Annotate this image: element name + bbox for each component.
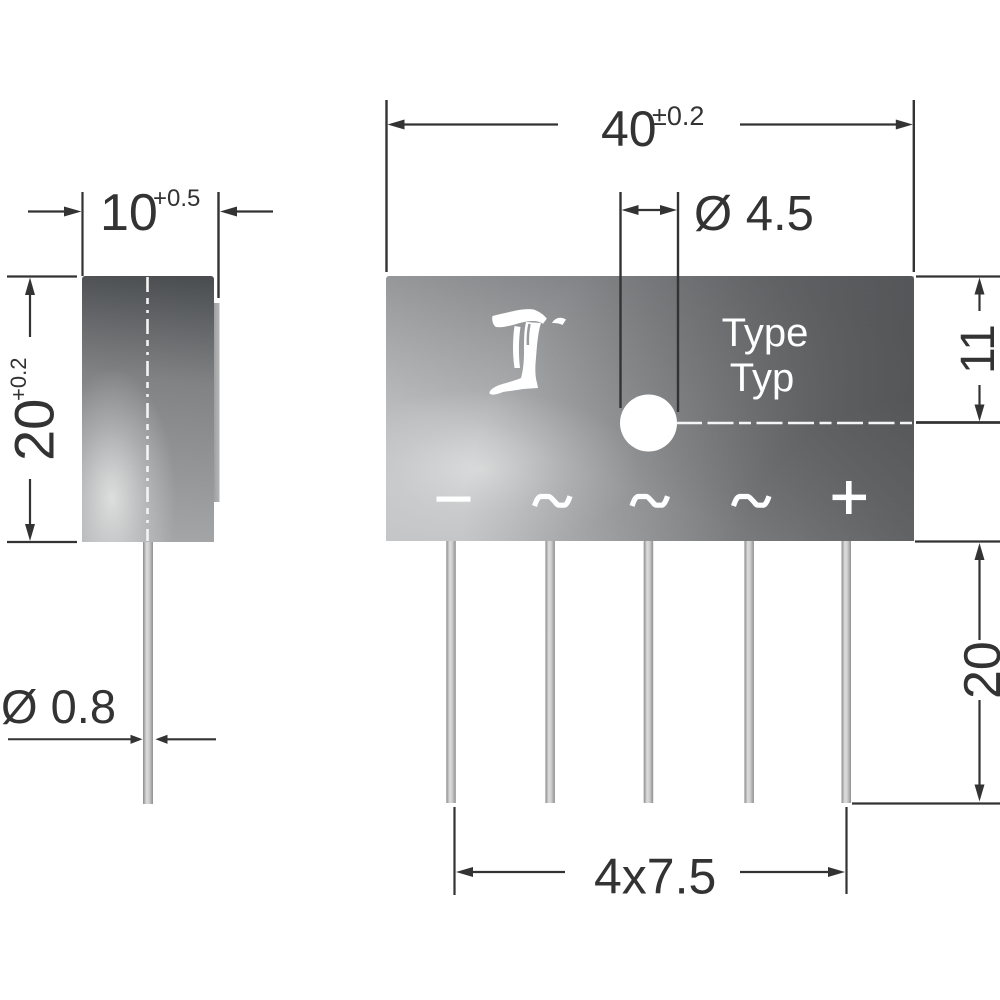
dimension 10 arrow left xyxy=(64,207,82,217)
svg-text:20: 20 xyxy=(3,399,66,461)
dimension 10 extension right xyxy=(217,192,219,298)
dimension 10 extension left xyxy=(81,192,83,276)
svg-text:±0.2: ±0.2 xyxy=(652,101,704,131)
svg-text:Ø 4.5: Ø 4.5 xyxy=(694,187,814,241)
dimension 20 left arrow down xyxy=(25,524,35,541)
terminal tilde 2 xyxy=(632,496,668,506)
svg-text:Typ: Typ xyxy=(730,356,794,400)
lead 4 xyxy=(744,541,754,803)
lead 3 xyxy=(644,541,654,803)
dimension 20 right arrow up xyxy=(975,543,985,560)
dimension 4x7.5 arrow left xyxy=(456,867,473,877)
dimension 4.5 arrows xyxy=(622,205,678,215)
dimension 20 right extension top xyxy=(915,540,1000,542)
dimension 11 extension top xyxy=(916,275,1000,277)
logo (stylized gothic J, stem with foot) xyxy=(489,322,541,395)
svg-text:11: 11 xyxy=(952,324,1000,374)
dimension 10 arrow right xyxy=(220,207,237,217)
lead 5 xyxy=(842,541,852,803)
svg-text:40: 40 xyxy=(601,101,657,157)
svg-text:+0.2: +0.2 xyxy=(6,358,31,401)
dimension 11 arrow up xyxy=(975,278,985,295)
terminal plus xyxy=(833,481,867,514)
logo inner slit xyxy=(528,324,530,345)
centerline of left body (dash-dot) xyxy=(146,277,149,541)
terminal tilde 1 xyxy=(535,496,571,506)
terminal tilde 3 xyxy=(734,496,770,506)
hole xyxy=(620,395,677,452)
dimension 4.5 line left xyxy=(619,192,621,408)
body right view xyxy=(386,276,914,541)
svg-text:+0.5: +0.5 xyxy=(153,185,200,212)
dimension 20 left extension bottom xyxy=(7,541,77,543)
logo tick xyxy=(552,318,566,325)
dimension 4.5 line right xyxy=(677,192,679,412)
dimension 11 extension bottom xyxy=(916,421,1000,424)
dimension 0.8 arrow right xyxy=(156,735,168,744)
logo left stroke xyxy=(513,326,521,368)
lead 1 xyxy=(446,541,456,803)
lead 2 xyxy=(545,541,555,803)
svg-text:20: 20 xyxy=(954,641,1000,699)
dimension 11 arrow down xyxy=(975,405,985,422)
dimension 4x7.5 arrow right xyxy=(828,867,845,877)
dimension 0.8 arrow left xyxy=(8,738,133,740)
dimension 4x7.5 extension right xyxy=(845,807,847,894)
dimension 40 extension left xyxy=(385,100,387,272)
lead of left view xyxy=(143,542,153,804)
svg-text:Type: Type xyxy=(722,311,809,355)
dimension 4x7.5 extension left xyxy=(453,807,455,895)
svg-text:Ø 0.8: Ø 0.8 xyxy=(1,680,116,733)
dimension 20 left extension top xyxy=(7,275,77,277)
svg-text:10: 10 xyxy=(100,184,158,242)
svg-text:4x7.5: 4x7.5 xyxy=(594,849,716,905)
body left view xyxy=(82,276,214,542)
dimension 40 extension right xyxy=(913,100,915,272)
dimension 40 arrow left xyxy=(388,120,405,130)
terminal minus xyxy=(437,497,471,502)
dimension 20 right extension bottom xyxy=(852,802,1000,804)
dimension 40 arrow right xyxy=(896,120,913,130)
dimension 20 left arrow up xyxy=(25,278,35,296)
logo top bar xyxy=(492,309,547,327)
side face strip of left body xyxy=(214,303,220,502)
hole centerline (dash) xyxy=(676,422,914,425)
dimension 20 right arrow down xyxy=(975,785,985,802)
